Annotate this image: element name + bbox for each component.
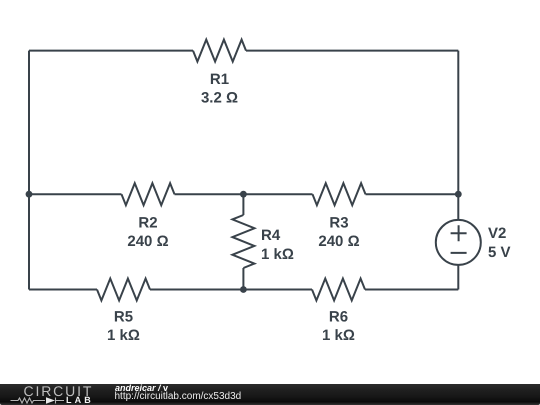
resistor R3	[313, 183, 366, 205]
credit user	[115, 384, 168, 393]
svg-text:1 kΩ: 1 kΩ	[261, 246, 294, 263]
svg-text:1 kΩ: 1 kΩ	[322, 327, 355, 344]
footer bar	[0, 384, 540, 405]
svg-text:R4: R4	[261, 227, 281, 244]
voltage source V2	[436, 220, 481, 265]
node left junction	[26, 191, 33, 198]
wire R4 bottom lead	[242, 268, 244, 290]
wire right vertical bottom	[457, 265, 459, 290]
wire left vertical	[28, 51, 30, 290]
resistor R2	[122, 183, 175, 205]
svg-text:V2: V2	[488, 225, 506, 242]
wire bottom-center horizontal	[150, 289, 312, 291]
svg-text:240 Ω: 240 Ω	[318, 233, 359, 250]
wire bottom-right horizontal	[365, 289, 458, 291]
wire top-left horizontal	[29, 50, 193, 52]
node R4 bottom junction	[240, 286, 247, 293]
resistor R4	[232, 215, 254, 268]
wire right vertical top	[457, 51, 459, 220]
node right junction	[455, 191, 462, 198]
resistor R1	[193, 40, 246, 62]
svg-text:LAB: LAB	[66, 395, 94, 405]
svg-text:R1: R1	[210, 71, 229, 88]
svg-text:5 V: 5 V	[488, 244, 511, 261]
CircuitLab logo	[0, 384, 110, 405]
node R4 top junction	[240, 191, 247, 198]
svg-text:3.2 Ω: 3.2 Ω	[201, 90, 238, 107]
wire middle-left horizontal	[29, 193, 122, 195]
wire bottom-left horizontal	[29, 289, 97, 291]
wire R4 top lead	[242, 194, 244, 215]
wire middle-right horizontal	[366, 193, 459, 195]
svg-text:R6: R6	[329, 309, 348, 326]
svg-text:R2: R2	[138, 215, 157, 232]
svg-text:240 Ω: 240 Ω	[127, 233, 168, 250]
svg-text:R5: R5	[114, 309, 133, 326]
svg-text:1 kΩ: 1 kΩ	[107, 327, 140, 344]
credit url	[115, 392, 242, 402]
resistor R6	[312, 279, 365, 301]
wire top-right horizontal	[246, 50, 458, 52]
svg-text:R3: R3	[329, 215, 348, 232]
resistor R5	[97, 279, 150, 301]
wire middle-center horizontal	[175, 193, 313, 195]
